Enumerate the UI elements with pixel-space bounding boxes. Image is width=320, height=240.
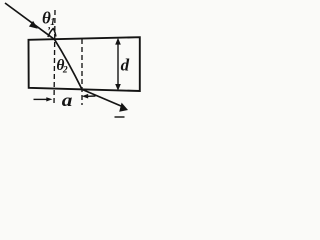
svg-text:2: 2 <box>62 66 68 76</box>
svg-text:d: d <box>121 55 130 74</box>
svg-text:1: 1 <box>50 17 55 28</box>
normal (dashed) at entry point <box>54 10 55 106</box>
lateral displacement arrow left <box>34 98 48 100</box>
refracted ray inside slab <box>55 39 83 89</box>
faint page rule at bottom <box>115 116 125 118</box>
thickness dimension arrow d <box>117 40 119 89</box>
exit ray <box>82 89 123 106</box>
lateral displacement arrow right <box>88 95 96 97</box>
svg-text:a: a <box>62 91 73 111</box>
glass slab rectangle <box>29 37 140 91</box>
exit ray arrowhead <box>119 103 128 112</box>
dashed vertical at exit point <box>81 39 83 105</box>
small loop at point of incidence <box>48 28 56 37</box>
incident ray arrowhead <box>29 21 38 29</box>
incident ray <box>5 3 55 39</box>
svg-text:,: , <box>47 20 51 31</box>
